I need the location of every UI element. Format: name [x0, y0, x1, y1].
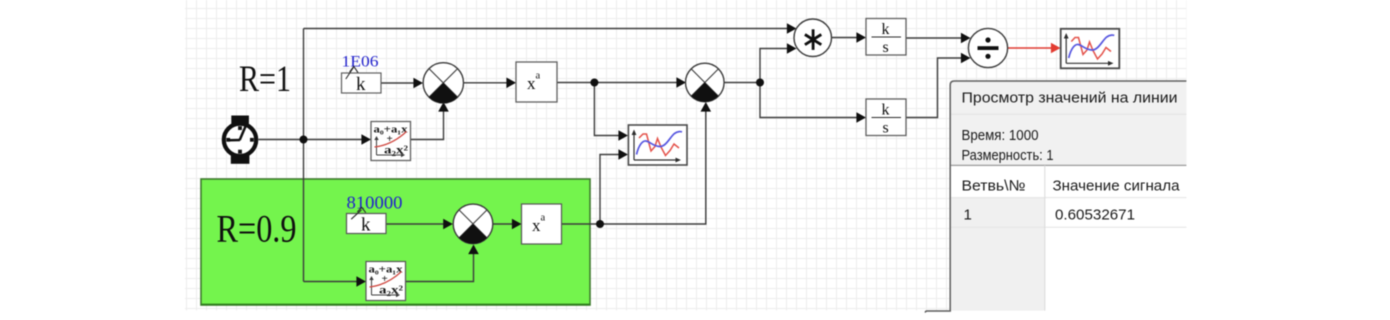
gain K1 block [342, 66, 382, 95]
wire: gain K2 to summator S3 [386, 223, 444, 225]
wire: I2 to divider lower input [906, 58, 961, 118]
junction J2 [590, 79, 598, 87]
gain K2 block [347, 207, 387, 235]
svg-text:k: k [356, 74, 366, 95]
wire: X2 to junction J3 [562, 223, 601, 225]
svg-text:1: 1 [964, 206, 972, 223]
power block X1 [516, 62, 557, 102]
scope SC1 [628, 125, 687, 165]
summator S2 [686, 63, 725, 102]
wire: S2 to junction J4 [724, 82, 760, 84]
svg-text:Просмотр значений на линии: Просмотр значений на линии [962, 90, 1178, 107]
svg-text:s: s [883, 39, 889, 56]
svg-text:R=0.9: R=0.9 [217, 208, 297, 251]
polynomial block P1 [371, 122, 411, 161]
wire: P2 output up into summator S3 [406, 254, 474, 282]
svg-text:R=1: R=1 [239, 59, 291, 100]
wire: divider to scope SC2 (red) [1008, 47, 1053, 49]
junction J1 [300, 136, 308, 144]
panel divider under title [951, 113, 1187, 115]
wire: J3 right then up into S2 bottom input [600, 112, 706, 225]
wire: J1 vertical trunk [303, 29, 305, 282]
junction J3 [596, 220, 604, 228]
junction J4 [756, 79, 764, 87]
multiplier block [794, 19, 832, 57]
green region R=0.9 [201, 179, 590, 305]
wire: P1 output up into summator S1 [411, 112, 444, 140]
wire: clock to junction J1 [259, 139, 304, 141]
scope SC2 [1061, 29, 1120, 69]
polynomial block P2 [366, 262, 406, 301]
svg-text:1E06: 1E06 [342, 54, 379, 71]
wire: S1 to power block X1 [464, 82, 508, 84]
wire: I1 to divider upper input [906, 37, 961, 39]
svg-text:810000: 810000 [347, 193, 403, 213]
table row underline [951, 226, 1187, 228]
window corner artifact below panel [925, 311, 951, 313]
summator S1 [423, 63, 463, 103]
summator S3 [453, 204, 493, 244]
wire: multiplier to integrator I1 [832, 37, 857, 39]
value-view panel window [925, 81, 1186, 313]
table column divider [1044, 165, 1046, 310]
svg-text:Размерность: 1: Размерность: 1 [962, 148, 1054, 164]
wire: J4 up to multiplier lower input [760, 49, 787, 83]
svg-text:k: k [882, 21, 890, 38]
svg-text:k: k [361, 215, 371, 236]
power block X2 [522, 204, 562, 244]
clock source block [224, 116, 256, 164]
integrator I1 [866, 19, 906, 57]
wire: J2 down to scope SC1 input 1 [594, 83, 618, 136]
wire: S3 to power block X2 [493, 223, 513, 225]
svg-text:0.60532671: 0.60532671 [1055, 206, 1135, 223]
green region bottom heavy border [201, 304, 590, 306]
wire: J3 up to scope SC1 input 2 [600, 155, 619, 225]
wire: J4 down to integrator I2 [760, 83, 857, 118]
svg-text:Ветвь\№: Ветвь\№ [962, 178, 1026, 195]
panel divider above table [951, 164, 1187, 166]
integrator I2 [866, 99, 906, 137]
svg-text:Время: 1000: Время: 1000 [962, 128, 1039, 144]
canvas background with grid [185, 0, 1186, 311]
table header underline [951, 197, 1187, 199]
divider block [968, 28, 1007, 67]
wire: top run to multiplier [304, 28, 788, 30]
wire: J1 trunk to polynomial P2 [304, 281, 358, 283]
wire: gain K1 to summator S1 [381, 82, 414, 84]
svg-text:a: a [541, 213, 546, 224]
panel border [950, 81, 1186, 311]
wire: X1 to junction J2 and on to summator S2 [557, 82, 677, 84]
wire: J1 to polynomial P1 [304, 139, 363, 141]
svg-text:Значение сигнала: Значение сигнала [1053, 178, 1181, 195]
svg-text:a: a [536, 71, 541, 82]
svg-text:k: k [882, 102, 890, 119]
svg-text:s: s [883, 120, 889, 137]
